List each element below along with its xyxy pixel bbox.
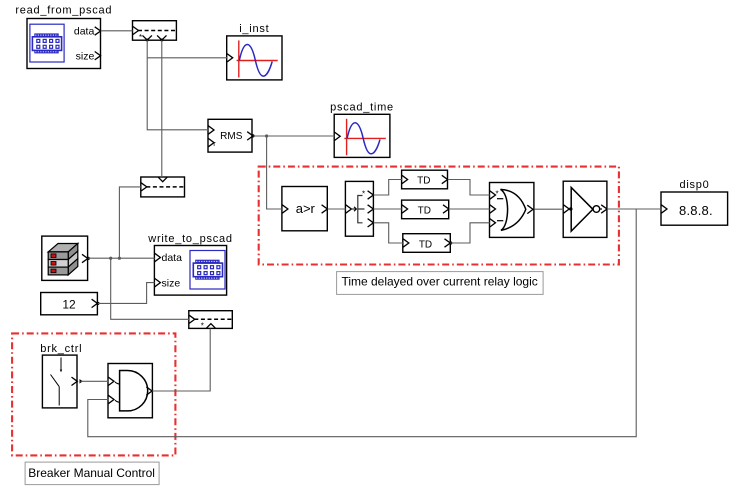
gate AND U3	[108, 364, 152, 418]
wire a>r out to splitter	[328, 208, 346, 210]
svg-text:TD: TD	[419, 239, 432, 250]
svg-text:TD: TD	[418, 205, 431, 216]
annotation box: time delayed over current relay logic (red dashed)	[259, 167, 619, 265]
wire demux1 out2 to mux2 top	[161, 40, 163, 177]
block pscad_time (scope)	[330, 102, 394, 158]
wire brk_ctrl out to AND in1	[81, 380, 109, 382]
svg-text:data: data	[74, 26, 95, 38]
wire branch RMS out down to a>r	[267, 136, 283, 209]
wire NOT out to disp0	[607, 208, 661, 210]
svg-text:*: *	[201, 322, 204, 331]
wire TD3 out to OR in3	[451, 223, 490, 243]
svg-text:*: *	[362, 190, 365, 199]
block RMS	[208, 119, 255, 152]
wire server out to write.data	[88, 257, 154, 259]
svg-text:RMS: RMS	[220, 131, 243, 142]
block TD1 (time delay)	[402, 170, 448, 189]
block i_inst (scope)	[227, 23, 282, 80]
block write_to_pscad	[147, 233, 233, 295]
wire splitter out2 to TD2	[374, 208, 402, 210]
block TD3 (time delay)	[403, 234, 453, 253]
wire splitter out1 to TD1	[374, 180, 402, 196]
block TD2 (time delay)	[402, 200, 449, 219]
gate OR U1	[490, 183, 534, 238]
wire AND out to mux3 bottom	[152, 329, 210, 391]
block mux2 (bus merge top)	[141, 177, 185, 197]
annotation box: breaker manual control (red dashed)	[12, 333, 175, 455]
svg-text:disp0: disp0	[679, 179, 709, 191]
svg-text:read_from_pscad: read_from_pscad	[15, 5, 112, 17]
svg-text:write_to_pscad: write_to_pscad	[147, 233, 233, 245]
label Time delayed over current relay logic	[337, 272, 543, 295]
block signal splitter	[345, 181, 373, 236]
wire feedback NOT out to AND in2	[88, 209, 636, 437]
svg-text:8.8.8.: 8.8.8.	[679, 203, 713, 218]
wire RMS out to pscad_time	[253, 135, 334, 137]
block brk_ctrl (breaker switch)	[40, 343, 83, 408]
svg-text:brk_ctrl: brk_ctrl	[40, 343, 82, 355]
svg-text:12: 12	[62, 297, 76, 311]
block disp0 (display)	[661, 179, 728, 225]
svg-text:i_inst: i_inst	[239, 23, 269, 35]
svg-text:size: size	[76, 50, 95, 62]
svg-text:*: *	[139, 33, 142, 42]
wire read.data to demux1	[101, 30, 133, 32]
gate NOT U2	[563, 181, 607, 237]
junction server/mux2	[118, 257, 121, 260]
block mux3 (bus merge bottom)	[189, 311, 233, 331]
svg-text:*: *	[496, 190, 499, 199]
wire const 12 to write.size	[98, 283, 155, 304]
svg-text:TD: TD	[417, 175, 430, 186]
block constant 12	[41, 293, 100, 315]
svg-text:data: data	[162, 252, 183, 264]
wire splitter out3 to TD3	[374, 223, 403, 243]
svg-text:Time delayed over current rela: Time delayed over current relay logic	[341, 275, 537, 289]
svg-text:a>r: a>r	[296, 201, 316, 216]
block read_from_pscad	[15, 5, 112, 69]
block demux1 (bus split)	[133, 21, 177, 42]
junction RMS-out branch	[265, 134, 268, 137]
label Breaker Manual Control	[25, 462, 159, 485]
wire TD1 out to OR in1	[448, 180, 490, 196]
junction server/mux3	[109, 257, 112, 260]
wire branch to i_inst	[147, 57, 227, 59]
svg-text:pscad_time: pscad_time	[330, 102, 394, 114]
wire branch server down to mux3	[111, 258, 189, 319]
block server (data store)	[42, 236, 90, 280]
wire OR out to NOT	[534, 208, 563, 210]
block comparator a>r	[282, 187, 328, 231]
svg-text:size: size	[162, 277, 181, 289]
wire TD2 out to OR in2	[449, 208, 490, 210]
wire demux1 out1 to RMS in1	[147, 40, 208, 130]
wire branch server up to mux2	[119, 187, 141, 258]
svg-text:Breaker Manual Control: Breaker Manual Control	[28, 466, 155, 480]
